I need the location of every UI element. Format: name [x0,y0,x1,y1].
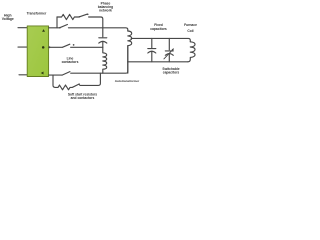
wire: phase C rail to autotransformer bottom [71,62,128,73]
wire: tee down to soft start branch [53,75,58,87]
transformer (green box) [27,26,48,77]
transformer mark: dot [42,46,45,49]
wire: HV input phase C stub [19,74,28,76]
switch: line contactor phase A [60,25,68,28]
switch: soft start contactor [73,84,79,87]
wire: phase B rail to balancer junction [71,46,103,48]
svg-text:capacitors: capacitors [150,27,167,31]
wire: phase B out of transformer [49,46,63,48]
capacitor: switchable capacitors (variable) [168,38,170,50]
transformer mark: up arrow [42,29,45,32]
svg-text:and contactors: and contactors [71,96,95,100]
wire: soft start return up to rail [80,73,101,85]
resistor: soft start R [58,85,72,90]
inductor: phase balancing L (4 bumps) [103,47,107,73]
svg-text:Coil: Coil [187,29,193,33]
svg-text:capacitors: capacitors [163,71,180,75]
wire: phase A out of transformer [49,27,60,29]
svg-text:Voltage: Voltage [2,17,14,21]
autotransformer winding (3 bumps then straight) [128,31,132,62]
svg-text:Furnace: Furnace [184,23,197,27]
wire: phase A rail to autotransformer [68,28,127,31]
switch: line contactor phase C [62,72,70,76]
transformer mark: left arrow [41,72,44,75]
furnace coil (3 bumps) [188,42,195,62]
wire: tank circuit bottom rail [128,61,188,63]
resistor: phase balancing R [57,14,79,19]
switch: phase balancing contactor [79,16,81,18]
wire: tee up to balancing branch [56,17,58,28]
wire: balancing branch top, corner down [89,17,103,37]
svg-text:Autotransformer: Autotransformer [115,79,140,83]
wire: HV input phase B stub [18,46,28,48]
wire: autotransformer bottom joint [127,46,129,73]
svg-text:contactors: contactors [62,60,79,64]
svg-text:Transformer: Transformer [27,12,47,16]
switch: line contactor phase B [62,44,69,47]
wire: tap from autotransformer to tank circuit [131,38,190,41]
capacitor: fixed capacitors [151,38,153,47]
svg-text:network: network [99,9,112,13]
arrow through switchable capacitor [164,49,174,59]
wire: HV input phase A stub [18,27,28,29]
capacitor: phase balancing C (straight + curved plate) [99,37,107,39]
wire: phase C out of transformer [49,74,62,76]
